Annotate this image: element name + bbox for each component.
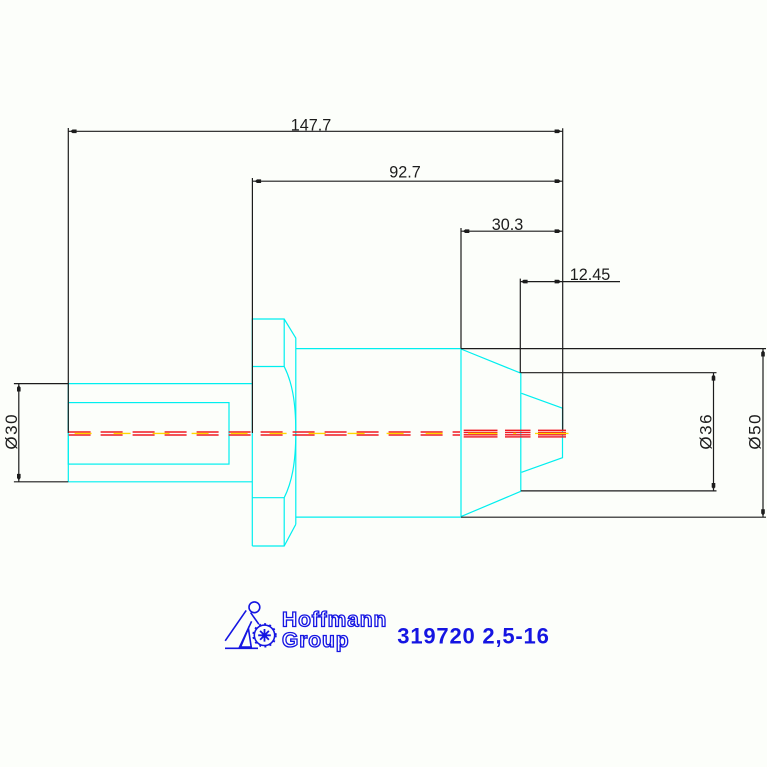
dimension 92.7: [252, 178, 562, 433]
svg-text:Ø36: Ø36: [697, 413, 716, 450]
centerline overlapped doubled centerline near nose: [464, 430, 566, 438]
part body outline: [296, 349, 461, 517]
part flange outline: [252, 319, 295, 546]
dimension dia36: [521, 373, 717, 491]
svg-text:Group: Group: [282, 629, 350, 652]
svg-text:30.3: 30.3: [492, 216, 524, 234]
dimension dia50: [461, 349, 766, 518]
dimension dia30: [14, 384, 68, 482]
part shank bore rectangle: [68, 403, 229, 465]
centerline yellow segments near nose: [468, 433, 568, 434]
centerline red dashes: [69, 432, 460, 435]
dimension 30.3: [461, 228, 563, 349]
dimension 147.7: [68, 128, 562, 433]
centerline yellow dash-dot: [69, 432, 461, 434]
product number text: [397, 623, 549, 648]
part collet bore cavity: [522, 393, 563, 472]
svg-text:12.45: 12.45: [570, 266, 611, 284]
dimension 12.45: [520, 279, 620, 373]
svg-text:92.7: 92.7: [389, 163, 421, 181]
part nose cone outline: [461, 349, 521, 517]
logo mark: [225, 602, 276, 648]
svg-text:Ø50: Ø50: [746, 413, 765, 450]
svg-text:319720 2,5-16: 319720 2,5-16: [397, 623, 549, 648]
svg-text:147.7: 147.7: [291, 116, 332, 134]
part shank outline: [68, 384, 252, 482]
logo wordmark Hoffmann Group: [282, 608, 387, 652]
svg-text:Ø30: Ø30: [2, 413, 21, 450]
